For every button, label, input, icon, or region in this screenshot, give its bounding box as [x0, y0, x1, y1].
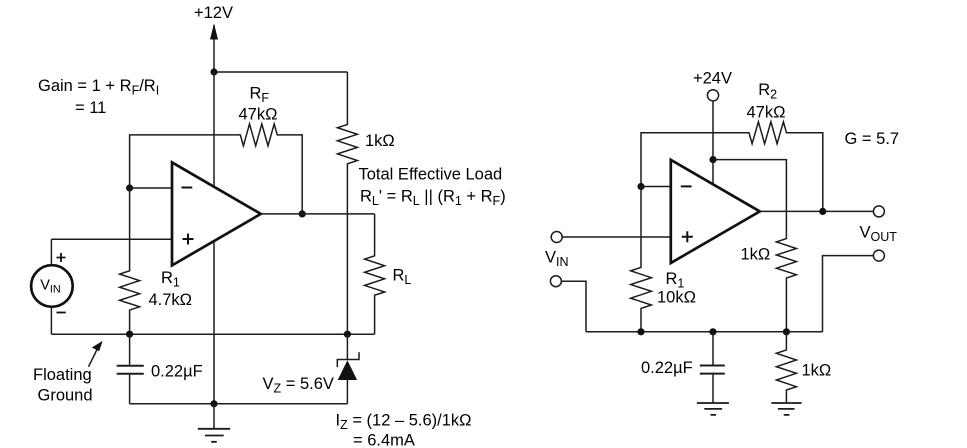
+12V arrow [213, 25, 215, 72]
wire V+ pin [213, 72, 215, 187]
ground symbol under cap [697, 403, 729, 415]
resistor R1 4.7k [120, 188, 140, 334]
junction dots rail right [637, 328, 644, 335]
junction dot minus input [126, 184, 133, 191]
minus sign right [681, 185, 692, 187]
RIGHT CIRCUIT [545, 69, 899, 415]
resistor 1k bottom right [776, 332, 796, 403]
feedback wire with resistor RF 47k [130, 124, 303, 214]
wire V- pin [213, 241, 215, 404]
LEFT CIRCUIT [31, 4, 506, 448]
ground symbol under 1k [771, 403, 801, 415]
svg-text:1kΩ: 1kΩ [741, 246, 771, 264]
source VIN [31, 265, 73, 307]
junction dot rail-zener [344, 331, 351, 338]
wire plus input right [562, 236, 671, 238]
op-amp U1 [172, 162, 261, 265]
junction dot supply [210, 68, 217, 75]
wire minus input right [641, 186, 671, 188]
svg-text:VZ = 5.6V: VZ = 5.6V [263, 375, 334, 396]
VIN terminal lower [550, 276, 561, 287]
floating ground arrow [89, 349, 98, 367]
resistor RL branch [365, 214, 385, 334]
floating ground rail [51, 333, 374, 335]
zener diode VZ [346, 334, 348, 359]
svg-text:1kΩ: 1kΩ [802, 361, 832, 379]
junction dot ground [210, 400, 217, 407]
wire plus input [51, 238, 172, 240]
inner wire from +24V to 1k [713, 160, 796, 332]
VIN terminal upper [551, 232, 562, 243]
svg-text:IZ = (12 – 5.6)/1kΩ: IZ = (12 – 5.6)/1kΩ [336, 412, 472, 433]
svg-text:Gain = 1 + RF/RI: Gain = 1 + RF/RI [38, 77, 159, 98]
wire VIN top [50, 239, 52, 265]
svg-text:+24V: +24V [693, 69, 732, 87]
capacitor 0.22uF right [712, 332, 714, 365]
svg-text:0.22µF: 0.22µF [151, 362, 203, 380]
capacitor 0.22uF [129, 334, 131, 365]
svg-text:Ground: Ground [38, 386, 93, 404]
svg-text:10kΩ: 10kΩ [657, 289, 696, 307]
wire lower VOUT [823, 256, 874, 332]
minus sign [182, 187, 193, 189]
bottom rail right [586, 331, 823, 333]
bottom ground wire [130, 403, 348, 405]
wire from lower VIN terminal [561, 281, 586, 332]
feedback wire with resistor R2 47k [641, 122, 823, 212]
junction dot rail-R1 [126, 331, 133, 338]
plus sign right [682, 231, 693, 242]
wire VIN bottom [50, 307, 52, 335]
junction dot on +24V line [709, 156, 716, 163]
VOUT terminal lower [873, 250, 884, 261]
resistor 1kOhm (from +12V) [337, 72, 357, 334]
svg-text:G = 5.7: G = 5.7 [845, 130, 900, 148]
op-amp U2 [671, 160, 760, 263]
junction dot output right [819, 208, 826, 215]
plus sign [183, 234, 194, 245]
svg-text:1kΩ: 1kΩ [365, 132, 395, 150]
svg-text:RL' = RL || (R1 + RF): RL' = RL || (R1 + RF) [360, 187, 506, 208]
resistor R1 10k right [631, 187, 652, 332]
+ polarity [57, 253, 66, 262]
svg-text:+12V: +12V [194, 4, 233, 22]
+24V terminal [707, 90, 718, 101]
junction dot minus right [637, 183, 644, 190]
wire top rail to 1k [214, 71, 347, 73]
svg-text:= 11: = 11 [75, 99, 106, 117]
ground symbol [213, 404, 215, 429]
wire +24V down [712, 101, 714, 184]
svg-text:47kΩ: 47kΩ [747, 103, 786, 121]
svg-text:Total Effective Load: Total Effective Load [359, 165, 503, 183]
VOUT terminal upper [873, 206, 884, 217]
svg-text:4.7kΩ: 4.7kΩ [149, 291, 193, 309]
svg-text:47kΩ: 47kΩ [239, 105, 278, 123]
wire output right [760, 210, 874, 212]
junction dot output [299, 210, 306, 217]
- polarity [57, 312, 66, 314]
wire output [261, 213, 375, 215]
svg-text:= 6.4mA: = 6.4mA [353, 432, 415, 448]
wire minus input [130, 187, 172, 189]
svg-text:0.22µF: 0.22µF [641, 359, 693, 377]
svg-text:Floating: Floating [33, 366, 92, 384]
